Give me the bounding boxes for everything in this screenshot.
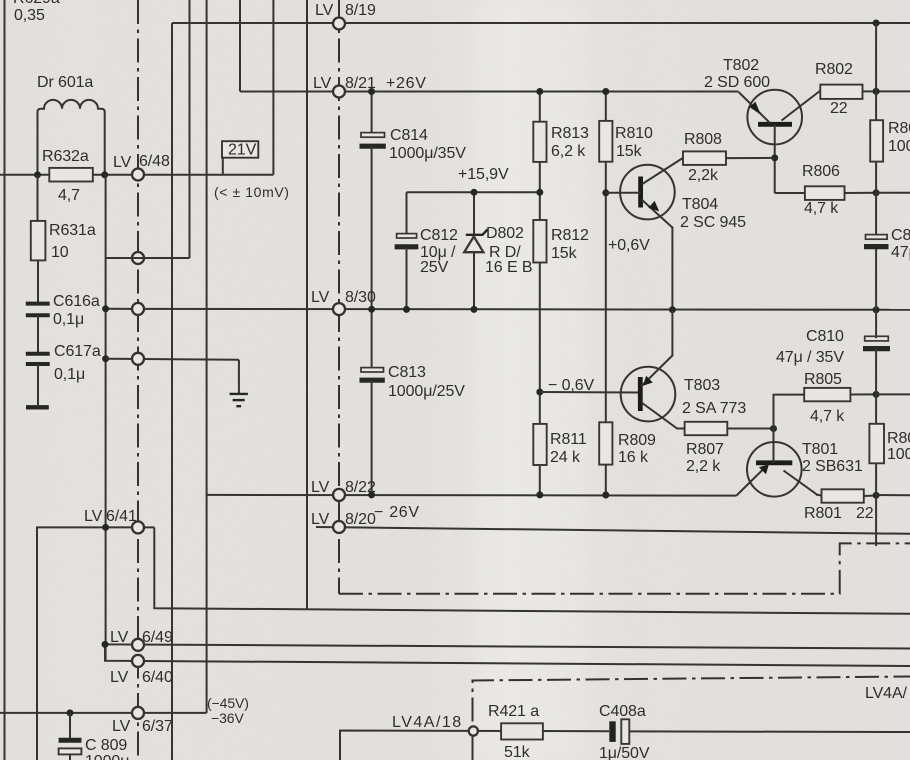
- resistor R803 (clipped): [869, 424, 910, 464]
- junction dot D802 top: [471, 189, 478, 196]
- resistor R801: [804, 489, 876, 522]
- svg-text:47μ / 35V: 47μ / 35V: [776, 349, 844, 366]
- svg-text:2 SC 945: 2 SC 945: [680, 214, 746, 231]
- svg-text:− 26V: − 26V: [374, 504, 420, 521]
- right rail x876: [875, 23, 877, 546]
- node LV 6/41: [84, 508, 144, 533]
- svg-text:21V: 21V: [228, 142, 257, 159]
- svg-text:C814: C814: [390, 127, 428, 144]
- svg-text:R808: R808: [684, 131, 722, 148]
- svg-text:4,7: 4,7: [58, 187, 80, 204]
- svg-text:R804: R804: [888, 120, 910, 137]
- wire R806 rail right stub: [876, 192, 910, 194]
- junction dot R813 bottom: [536, 189, 543, 196]
- wire +26V rail right stub: [876, 90, 910, 92]
- wire rail y495 right stub: [876, 494, 910, 496]
- svg-text:22: 22: [856, 505, 874, 522]
- wire top rail y23: [172, 22, 910, 24]
- svg-text:LV: LV: [315, 2, 334, 19]
- node LV 6/49: [110, 629, 173, 651]
- capacitor C616a: [26, 293, 100, 328]
- resistor R810: [599, 92, 653, 423]
- junction dot R811 bottom: [536, 491, 543, 498]
- wire vertical bus x273: [272, 0, 274, 175]
- resistor R802: [815, 61, 876, 117]
- transistor T804: [606, 158, 746, 310]
- svg-text:R629a: R629a: [13, 0, 60, 7]
- svg-text:R812: R812: [551, 227, 589, 244]
- svg-text:16 E B: 16 E B: [485, 259, 532, 276]
- capacitor C808 (clipped): [864, 227, 910, 261]
- junction dot x105 y645: [102, 641, 109, 648]
- capacitor C814: [360, 92, 467, 310]
- svg-text:C616a: C616a: [53, 293, 100, 310]
- wire long line A y608: [154, 527, 910, 613]
- resistor R804 (clipped): [870, 120, 910, 162]
- svg-text:51k: 51k: [504, 744, 531, 760]
- svg-text:2 SB631: 2 SB631: [802, 458, 863, 475]
- svg-text:LV: LV: [311, 289, 330, 306]
- junction dot output rail T804: [669, 306, 676, 313]
- svg-text:LV: LV: [110, 629, 129, 646]
- wire -0.6V row y392: [540, 391, 641, 394]
- svg-text:R810: R810: [615, 125, 653, 142]
- wire ground row y358: [106, 359, 239, 360]
- svg-text:6/37: 6/37: [142, 718, 173, 735]
- wire node row y175: [0, 174, 273, 176]
- svg-text:+0,6V: +0,6V: [608, 237, 650, 254]
- node dot top rail right: [873, 20, 880, 27]
- svg-text:C 809: C 809: [85, 737, 127, 754]
- svg-text:6,2 k: 6,2 k: [551, 143, 586, 160]
- svg-text:1000μ: 1000μ: [85, 753, 129, 760]
- svg-text:25V: 25V: [420, 259, 449, 276]
- svg-text:47μ: 47μ: [891, 244, 910, 261]
- wire LV4A/18 row y731: [340, 731, 609, 760]
- wire left border vertical: [4, 0, 6, 760]
- svg-text:R631a: R631a: [49, 222, 96, 239]
- svg-text:T802: T802: [723, 57, 759, 74]
- dash-dot module line x138: [137, 0, 139, 760]
- resistor R805: [774, 371, 877, 429]
- svg-text:T804: T804: [682, 196, 718, 213]
- ground symbol: [230, 360, 248, 406]
- junction dot x105 y358: [102, 355, 109, 362]
- node LV 8/22: [311, 479, 376, 501]
- svg-text:6/40: 6/40: [142, 669, 173, 686]
- svg-text:R809: R809: [618, 432, 656, 449]
- resistor R813: [533, 92, 589, 221]
- dash-dot module boundary bottom center: [473, 677, 910, 760]
- junction dot R632a left: [34, 171, 41, 178]
- wire +26V rail y91: [240, 91, 739, 93]
- svg-text:1μ/50V: 1μ/50V: [599, 745, 650, 760]
- junction dot R632a right: [101, 171, 108, 178]
- svg-text:C812: C812: [420, 227, 458, 244]
- svg-text:4,7 k: 4,7 k: [810, 408, 845, 425]
- svg-text:6/49: 6/49: [142, 629, 173, 646]
- resistor R812: [533, 220, 589, 424]
- svg-text:6/48: 6/48: [139, 153, 170, 170]
- svg-text:D802: D802: [486, 225, 524, 242]
- svg-text:Dr 601a: Dr 601a: [37, 74, 93, 91]
- svg-text:C617a: C617a: [54, 343, 101, 360]
- svg-text:+26V: +26V: [386, 75, 427, 92]
- wire LV6/41 row y527: [37, 527, 154, 760]
- svg-text:8/22: 8/22: [345, 479, 376, 496]
- junction dot T802 base: [771, 154, 778, 161]
- svg-text:2,2 k: 2,2 k: [686, 458, 721, 475]
- svg-text:+15,9V: +15,9V: [458, 166, 509, 183]
- svg-text:R807: R807: [686, 441, 724, 458]
- wire -26V rail y527: [316, 527, 910, 534]
- svg-text:6/41: 6/41: [106, 508, 137, 525]
- wire rail y495: [207, 494, 737, 497]
- junction dot T804 base: [602, 189, 609, 196]
- wire R631a to C616a: [37, 260, 39, 303]
- wire C616a to C617a: [37, 315, 39, 354]
- capacitor C810: [776, 328, 890, 366]
- svg-text:T801: T801: [802, 441, 838, 458]
- wire output rail y310: [106, 309, 910, 310]
- junction dot -0.6V left: [536, 389, 543, 396]
- node LV 8/20: [311, 511, 376, 533]
- svg-text:100: 100: [888, 138, 910, 155]
- junction dot R802 right: [873, 88, 880, 95]
- wire vertical bus x190: [189, 0, 191, 258]
- svg-text:LV: LV: [112, 718, 131, 735]
- resistor R806: [802, 163, 876, 217]
- transistor T801: [736, 429, 862, 497]
- junction dot C814 top: [368, 88, 375, 95]
- node LV 8/21: [313, 75, 376, 98]
- svg-text:0,1μ: 0,1μ: [53, 311, 84, 328]
- svg-text:R802: R802: [815, 61, 853, 78]
- wire vertical bus x240: [239, 0, 241, 92]
- resistor R632a: [42, 148, 93, 204]
- transistor T803: [621, 310, 747, 429]
- svg-text:LV: LV: [311, 479, 330, 496]
- capacitor C813: [360, 309, 466, 495]
- svg-text:R803: R803: [887, 430, 910, 447]
- svg-text:C810: C810: [806, 328, 844, 345]
- inductor Dr601a: [37, 74, 105, 175]
- svg-text:T803: T803: [684, 377, 720, 394]
- svg-text:1000μ/25V: 1000μ/25V: [388, 383, 465, 400]
- svg-text:C813: C813: [388, 364, 426, 381]
- wire vertical bus x207: [206, 0, 208, 713]
- capacitor C809: [59, 713, 130, 760]
- svg-text:C408a: C408a: [599, 703, 646, 720]
- junction dot x105 y527: [102, 524, 109, 531]
- svg-text:LV: LV: [113, 154, 132, 171]
- svg-text:LV: LV: [84, 508, 103, 525]
- resistor R811: [533, 424, 587, 495]
- svg-text:15k: 15k: [551, 245, 578, 262]
- svg-text:0,1μ: 0,1μ: [54, 366, 85, 383]
- svg-text:8/20: 8/20: [345, 511, 376, 528]
- svg-text:8/19: 8/19: [345, 2, 376, 19]
- svg-text:LV: LV: [110, 669, 129, 686]
- node circle y258 on x138: [132, 252, 144, 264]
- vertical bus x105: [105, 175, 107, 661]
- resistor R809: [599, 422, 656, 495]
- resistor R421a: [488, 703, 543, 760]
- svg-text:R813: R813: [551, 125, 589, 142]
- wire long line C y661: [105, 644, 910, 666]
- svg-text:C808: C808: [891, 227, 910, 244]
- wire C617a to end bar: [37, 364, 39, 405]
- junction dot T801 base: [770, 425, 777, 432]
- chassis end bar: [26, 405, 49, 409]
- wire y258 row: [106, 257, 190, 259]
- zener diode D802: [464, 192, 532, 309]
- svg-text:24 k: 24 k: [550, 449, 581, 466]
- svg-text:−36V: −36V: [211, 710, 244, 726]
- node LV 6/37: [112, 707, 173, 735]
- junction dot x105 y309: [102, 305, 109, 312]
- junction dot R805 right: [873, 391, 880, 398]
- svg-text:1000μ/35V: 1000μ/35V: [389, 145, 466, 162]
- svg-text:(< ± 10mV): (< ± 10mV): [214, 184, 290, 200]
- resistor R807: [685, 422, 774, 475]
- capacitor C812: [395, 192, 458, 309]
- resistor R631a: [31, 175, 96, 261]
- svg-text:R811: R811: [550, 431, 587, 448]
- annotation box 21V: [222, 141, 258, 175]
- wire vertical bus x307: [306, 0, 308, 610]
- svg-text:2,2k: 2,2k: [688, 167, 719, 184]
- junction dot output rail right: [873, 306, 880, 313]
- svg-text:R632a: R632a: [42, 148, 89, 165]
- transistor T802: [704, 57, 821, 193]
- junction dot R813 top: [536, 88, 543, 95]
- node circle y358 on x138: [132, 353, 144, 365]
- node LV 8/30: [311, 289, 376, 315]
- wire R805 rail right stub: [876, 393, 910, 395]
- svg-text:R806: R806: [802, 163, 840, 180]
- junction dot R801 right: [873, 492, 880, 499]
- svg-text:(−45V): (−45V): [207, 695, 249, 711]
- junction dot C813 top: [368, 306, 375, 313]
- wire R806 row y193: [775, 192, 806, 194]
- svg-text:0,35: 0,35: [14, 7, 45, 24]
- junction dot C809 top: [67, 709, 74, 716]
- svg-text:LV: LV: [313, 75, 332, 92]
- svg-text:100: 100: [887, 446, 910, 463]
- node LV4A/18: [392, 714, 478, 736]
- svg-text:R421 a: R421 a: [488, 703, 539, 720]
- svg-text:8/30: 8/30: [345, 289, 376, 306]
- junction dot R810 top: [602, 88, 609, 95]
- wire +15.9V row y192: [407, 191, 540, 193]
- junction dot D802 bottom: [471, 306, 478, 313]
- junction dot C812 bottom: [403, 306, 410, 313]
- svg-text:LV: LV: [311, 511, 330, 528]
- junction dot C813 bottom: [368, 491, 375, 498]
- wire LV6/37 row y713: [0, 712, 207, 714]
- svg-text:22: 22: [830, 100, 848, 117]
- svg-text:LV4A/: LV4A/: [865, 685, 908, 702]
- svg-text:10: 10: [51, 244, 69, 261]
- svg-text:16 k: 16 k: [618, 449, 649, 466]
- svg-text:R805: R805: [804, 371, 842, 388]
- svg-text:R801: R801: [804, 505, 842, 522]
- wire vertical bus x172: [171, 23, 173, 760]
- svg-text:15k: 15k: [616, 143, 643, 160]
- capacitor C617a: [26, 343, 101, 383]
- node LV 6/40: [110, 655, 173, 686]
- svg-text:4,7 k: 4,7 k: [804, 200, 839, 217]
- svg-text:LV4A/18: LV4A/18: [392, 714, 463, 731]
- dash-dot module line x339: [338, 0, 340, 594]
- junction dot R809 bottom: [602, 492, 609, 499]
- junction dot R806 right: [873, 189, 880, 196]
- node LV 6/48: [113, 153, 170, 181]
- svg-text:2 SA 773: 2 SA 773: [682, 400, 746, 417]
- wire long line B y645: [105, 644, 910, 648]
- node LV 8/19: [315, 2, 376, 30]
- capacitor C408a: [599, 703, 910, 760]
- dash-dot module boundary bottom right: [339, 543, 910, 593]
- resistor R808: [683, 131, 775, 184]
- node circle y309 on x138: [132, 303, 144, 315]
- svg-text:2 SD 600: 2 SD 600: [704, 74, 770, 91]
